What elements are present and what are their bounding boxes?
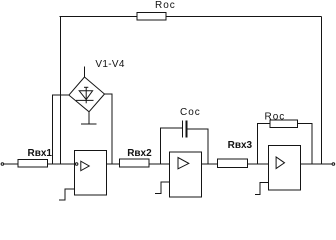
ground	[81, 123, 96, 125]
diode bridge V1-V4	[69, 77, 105, 112]
svg-text:Rвх3: Rвх3	[228, 140, 253, 151]
wire input to Rvx1	[4, 163, 18, 165]
wire U2 output to Rвх3	[201, 163, 217, 165]
resistor Rвх3	[218, 159, 248, 167]
resistor Rос (stage-3 feedback)	[270, 120, 298, 127]
wire Roc feedback left vertical	[59, 17, 61, 165]
wire bridge bottom to ground	[88, 112, 90, 125]
wire bridge right vertex down to U1 output	[105, 94, 113, 164]
input terminal	[1, 163, 4, 166]
svg-text:V1-V4: V1-V4	[95, 59, 124, 70]
wire U1 noninverting input step	[59, 189, 75, 200]
wire U3 noninverting input step	[255, 182, 269, 194]
svg-text:Roc: Roc	[265, 111, 286, 122]
wire Roc feedback right vertical	[321, 17, 323, 165]
wire bridge top stub	[84, 67, 86, 78]
wire U2 noninverting input step	[155, 182, 169, 194]
resistor Rвх1	[18, 159, 48, 167]
op-amp U2	[169, 152, 201, 197]
wire Rвх2 to U2 input	[149, 163, 170, 165]
wire top feedback left segment	[60, 16, 138, 18]
wire Coc right tap	[188, 129, 208, 164]
wire U1 output to Rвх2	[106, 163, 119, 165]
svg-text:Coc: Coc	[180, 107, 201, 118]
svg-text:Rвх1: Rвх1	[28, 148, 53, 159]
svg-text:Rвх2: Rвх2	[127, 148, 152, 159]
wire Coc left tap	[160, 128, 182, 164]
op-amp U1	[75, 150, 107, 195]
wire U3 output to output terminal	[300, 163, 332, 165]
op-amp U3	[268, 146, 300, 191]
wire Rвх1 to U1 input	[48, 163, 76, 165]
wire bridge left vertex to input node	[52, 95, 69, 164]
wire top feedback right segment	[166, 16, 321, 18]
output terminal	[332, 163, 335, 166]
wire Rвх3 to U3 input	[248, 163, 269, 165]
wire Roc3 feedback right	[297, 124, 312, 165]
wire Roc3 feedback left	[257, 123, 270, 164]
resistor Roc (top feedback)	[137, 13, 166, 20]
capacitor Coc	[183, 121, 187, 138]
resistor Rвх2	[120, 159, 149, 167]
svg-text:Roc: Roc	[155, 0, 176, 11]
